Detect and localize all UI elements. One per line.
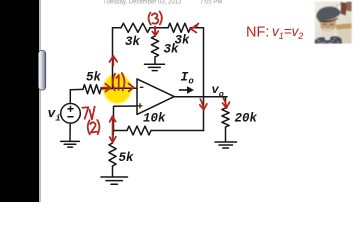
resistor R 3k (top-right) [168, 23, 191, 32]
red NF: v1=v2 [246, 24, 303, 41]
resistor 10k (bottom feedback) [127, 126, 151, 135]
source minus sign [68, 116, 73, 118]
red node label (3) [149, 12, 162, 25]
red arrow right into node 1 [101, 84, 111, 92]
red arrow down at 20k top [223, 98, 230, 108]
svg-text:3k: 3k [125, 35, 141, 49]
wire: source top to 5k [70, 89, 83, 103]
wire: top rail left segment [113, 27, 122, 29]
eyes [323, 23, 333, 25]
svg-text:Tuesday, December 03, 2013: Tuesday, December 03, 2013 [103, 0, 182, 5]
red node label (2) [88, 120, 100, 135]
red arrow right toward op-amp minus input [129, 84, 134, 92]
wire: source bottom to ground [69, 123, 71, 141]
wire: 20k to ground [225, 127, 227, 141]
wire: node 1 to inverting input [113, 87, 138, 89]
wire: plus input left and down to node 2 [114, 106, 138, 131]
wire: node 2 down to 5k vertical [113, 131, 114, 144]
wire: top rail right + right feedback vertical down to bottom rail [191, 28, 204, 131]
ground (below 20k) [215, 142, 237, 148]
source plus sign [68, 106, 73, 111]
svg-text:20k: 20k [235, 112, 258, 126]
mustache [323, 28, 332, 32]
voltage source Vi circle [61, 104, 81, 124]
wire: 10k to right feedback vertical [151, 130, 204, 132]
wire: vo node down to 20k [225, 97, 227, 108]
red annotations [82, 12, 303, 143]
red arrow up on left feedback wire [110, 56, 118, 66]
op-amp plus label [138, 103, 143, 108]
cap brim [318, 17, 338, 22]
resistor 5k (series input) [83, 85, 101, 94]
op-amp minus label [140, 86, 144, 88]
red 7V [82, 107, 94, 120]
wire: top rail middle segment (node 3) [150, 27, 168, 29]
white object top right [336, 5, 341, 14]
ground (below source) [61, 141, 80, 147]
wire: 5k to node 1 [101, 88, 113, 90]
sofa band right [336, 23, 352, 30]
svg-text:5k: 5k [119, 151, 135, 165]
svg-text:3k: 3k [164, 43, 180, 57]
webcam photo overlay [315, 2, 352, 44]
yellow highlight node 1 [102, 72, 133, 105]
svg-text:10k: 10k [143, 112, 166, 126]
red arrow down into node 3 [152, 27, 158, 36]
scrollbar pill [38, 50, 45, 90]
svg-text:NF:: NF: [246, 25, 269, 41]
wire: left feedback vertical (node 1 up to top rail) [112, 28, 114, 89]
red arrow pointing left at top-right 3k [191, 24, 199, 33]
ground (below 5k vertical) [101, 177, 128, 184]
wire: node 2 to 10k [114, 130, 128, 132]
left black bar [0, 0, 39, 202]
resistor 20k (load) [222, 108, 229, 127]
red arrow down on right feedback vertical [200, 99, 207, 110]
face [320, 18, 336, 32]
sweater [315, 36, 343, 43]
resistor R 3k (top-left) [121, 23, 150, 32]
flat cap [316, 6, 340, 20]
op-amp U1 triangle [137, 79, 174, 115]
dark red object top right [341, 2, 348, 16]
beard [319, 25, 336, 40]
wire: vertical 3k to ground [154, 57, 156, 64]
nose shadow [327, 25, 329, 28]
Io arrow (black) [179, 86, 194, 94]
resistor 3k (vertical, node 3 to ground) [151, 36, 158, 57]
resistor 5k (node 2 to ground) [109, 143, 116, 166]
wire: op-amp output [174, 96, 227, 98]
wire: stub node 3 down to vertical resistor [154, 28, 156, 36]
wire: 5k vertical to ground [112, 166, 114, 176]
sweater texture [316, 38, 339, 43]
red double arrow at node 2 (up and down) [110, 116, 116, 142]
svg-text:7:05 PM: 7:05 PM [200, 0, 222, 5]
ground (below 3k vertical) [145, 64, 165, 70]
svg-text:5k: 5k [86, 71, 102, 85]
red node label (1) [113, 73, 125, 91]
